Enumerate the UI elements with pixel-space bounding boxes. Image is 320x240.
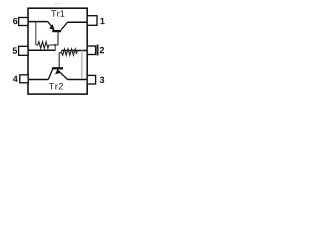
wire collector Tr1 to pin1 [68,21,88,23]
pin number 6 [13,18,17,24]
wire pin6 to emitter [29,21,48,23]
wire pin4 to emitter Tr2 [29,79,49,81]
pin number 2 [100,47,104,53]
faint cropped text remnant above outline [54,3,61,5]
resistor R1 [36,42,58,49]
background [0,0,117,98]
pin 2 pad [87,46,95,55]
pin number 4 [13,76,18,82]
wire node A stub [54,45,56,50]
pin 4 pad [20,75,28,83]
wire pin2 [62,50,88,52]
pin 5 pad [19,46,28,55]
transistor Tr1 [48,22,68,45]
wire faint pin2 to pin3 [81,50,83,79]
pin 6 pad [19,18,28,26]
transistor Tr2 [48,68,67,79]
wire branch vertical R1 [35,22,37,45]
package outline [28,8,87,94]
wire pin5 [29,49,56,51]
bar next to pin 2 [97,45,99,56]
pin number 5 [13,48,17,54]
pin number 3 [100,77,104,83]
pin number 1 [100,18,104,24]
pin 3 pad [87,75,95,84]
pin 1 pad [87,16,97,26]
node A junction dot [54,44,56,46]
label Tr2 [49,83,63,89]
resistor R2 [59,51,61,53]
wire base Tr2 [58,53,60,68]
label Tr1 [51,10,64,16]
wire collector Tr2 to pin3 [68,79,88,81]
